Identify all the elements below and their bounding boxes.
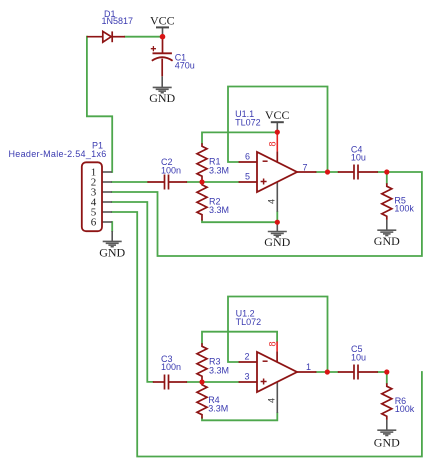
svg-text:GND: GND [264,235,290,249]
svg-text:TL072: TL072 [235,118,261,128]
svg-text:3.3M: 3.3M [208,404,228,414]
svg-text:100k: 100k [395,404,415,414]
svg-text:3: 3 [244,371,249,381]
svg-text:1: 1 [306,362,311,372]
svg-text:10u: 10u [351,153,366,163]
svg-text:GND: GND [374,435,400,449]
svg-text:8: 8 [267,341,277,346]
svg-text:Header-Male-2.54_1x6: Header-Male-2.54_1x6 [9,149,107,159]
svg-text:3.3M: 3.3M [209,205,229,215]
svg-text:VCC: VCC [150,13,175,27]
svg-text:5: 5 [245,171,250,181]
svg-text:GND: GND [149,91,175,105]
svg-text:GND: GND [99,246,125,260]
svg-text:100n: 100n [161,165,181,175]
svg-text:10u: 10u [351,352,366,362]
svg-text:100k: 100k [394,204,414,214]
svg-text:470u: 470u [175,60,195,70]
svg-text:VCC: VCC [265,108,290,122]
svg-text:GND: GND [374,234,400,248]
svg-text:8: 8 [268,141,278,146]
svg-text:6: 6 [245,151,250,161]
svg-text:4: 4 [266,199,276,204]
svg-text:2: 2 [244,351,249,361]
svg-text:7: 7 [303,162,308,172]
svg-text:4: 4 [266,398,276,403]
svg-text:TL072: TL072 [236,317,262,327]
svg-text:100n: 100n [161,362,181,372]
svg-text:1N5817: 1N5817 [102,16,134,26]
svg-text:6: 6 [91,217,97,229]
svg-text:3.3M: 3.3M [209,166,229,176]
svg-text:3.3M: 3.3M [209,366,229,376]
